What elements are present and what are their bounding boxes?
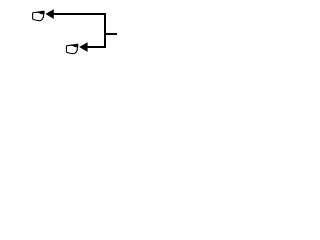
curl left edge + bottom wave S2 — [66, 46, 77, 54]
vertical wire W2 — [104, 13, 106, 48]
curl roll blob S2 — [72, 44, 79, 47]
curl top edge S1 — [33, 11, 44, 12]
symbol S2 (page-curl with arrow, bottom) — [66, 42, 87, 53]
curl roll blob S1 — [38, 11, 45, 14]
stub wire W3 right — [104, 33, 117, 35]
wire W4 from S2 to vertical — [87, 46, 106, 48]
arrowhead S2 — [79, 42, 87, 52]
symbol S1 (page-curl with arrow, top-left) — [33, 9, 54, 20]
curl top edge S2 — [67, 44, 78, 45]
curl right edge S1 — [42, 12, 45, 18]
wire W1 from S1 to vertical — [54, 13, 107, 15]
background — [0, 0, 150, 70]
arrowhead S1 — [45, 9, 53, 19]
curl right edge S2 — [76, 45, 79, 51]
curl left edge + bottom wave S1 — [33, 13, 44, 21]
